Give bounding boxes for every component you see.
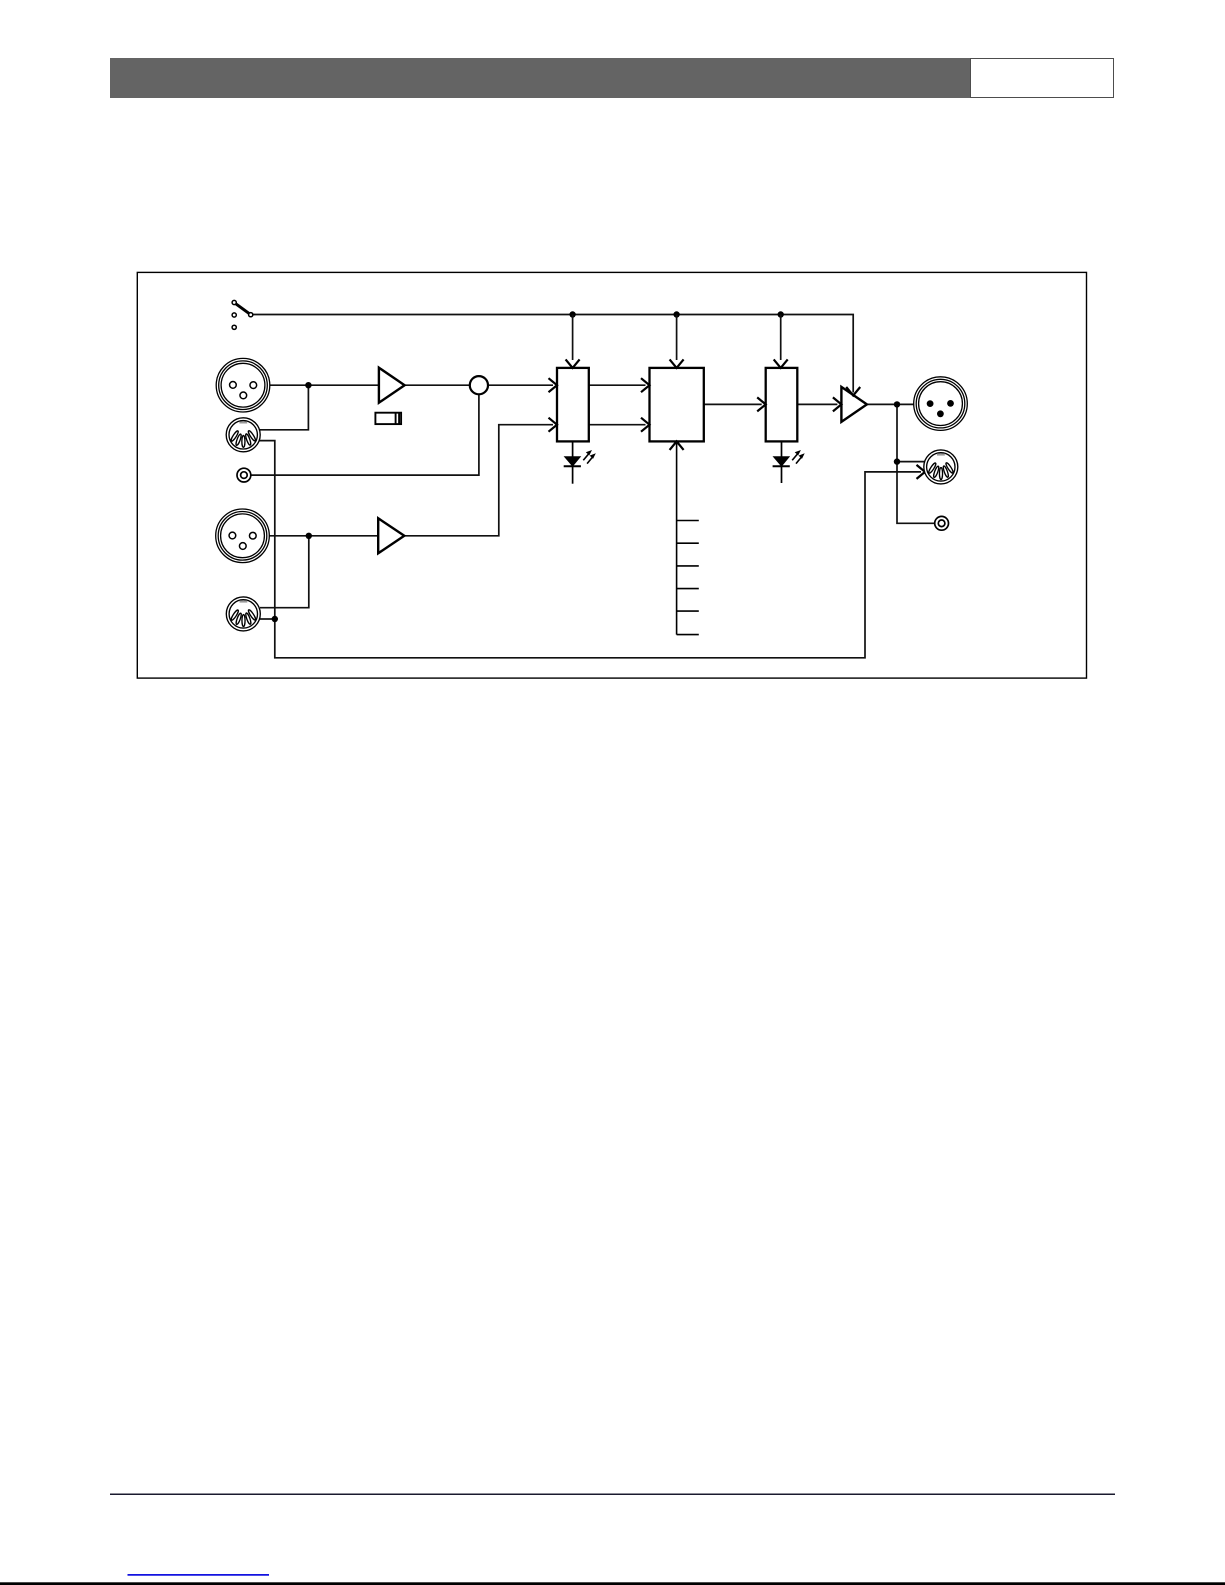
switch S1 lever <box>236 304 249 314</box>
switch S1 pole contact <box>249 313 253 317</box>
arrow onto driver U3 enable <box>846 387 860 396</box>
junction on rail above block1 <box>569 311 575 317</box>
LED D2 below block3 <box>773 441 805 483</box>
buffer amp U2 <box>378 518 404 553</box>
arrow into block1 lower input <box>549 418 558 432</box>
switch S1 contact bottom <box>232 325 236 329</box>
DIN output connector <box>924 450 958 484</box>
arrow into block1 upper input <box>549 378 558 392</box>
DIP switch comb below block2 <box>677 441 699 634</box>
arrow into block1 top <box>566 359 580 368</box>
arrow into block3 input <box>757 397 766 411</box>
wire: block1 to block2 upper <box>589 384 646 386</box>
wire: output junction down to DIN and RCA outputs <box>897 404 935 523</box>
XLR1 pin 1 <box>240 392 247 399</box>
wire: block2 output to block3 <box>704 403 762 405</box>
wire: amp U1 output to node <box>405 384 470 386</box>
wire: DIN input 2 lower pin to return path <box>260 618 275 620</box>
RCA input connector <box>237 468 251 482</box>
XLR output connector <box>914 377 968 431</box>
arrow into DIN output <box>917 465 926 479</box>
XLR out pin 2 <box>927 400 934 407</box>
buffer amp U1 <box>379 368 405 403</box>
XLR out pin 1 <box>937 410 944 417</box>
vertical drop rail to block1 <box>572 315 574 361</box>
switch S1 contact middle <box>232 313 236 317</box>
junction on rail above block3 <box>778 311 784 317</box>
LED D1 below block1 <box>564 441 596 483</box>
junction on rail above block2 <box>673 311 679 317</box>
diagram frame <box>137 272 1086 678</box>
junction on XLR2 thru wire <box>306 533 312 539</box>
junction on DIN2 return wire <box>272 616 278 622</box>
XLR input connector 1 <box>216 358 270 412</box>
footer link underline <box>128 1574 270 1576</box>
wire: output junction to DIN output upper pin <box>897 461 925 463</box>
wire: XLR input 1 to buffer amp U1 <box>270 384 378 386</box>
XLR2 pin 2 <box>229 532 236 539</box>
wire: driver U3 output to XLR output <box>867 403 914 405</box>
arrow into block2 bottom input <box>670 441 684 450</box>
XLR1 pin 3 <box>250 382 257 389</box>
wire: XLR input 2 to buffer amp U2 <box>269 535 377 537</box>
junction at driver output <box>894 401 900 407</box>
header gray bar <box>110 58 971 98</box>
footer rule <box>110 1493 1115 1495</box>
wire: node to receiver block input <box>488 384 553 386</box>
switch S1 contact top <box>232 300 236 304</box>
wire: block1 to block2 lower <box>589 424 646 426</box>
wire: thru junction down to DIN input 1 <box>259 385 308 430</box>
wire: block3 output to line driver U3 <box>797 403 837 405</box>
wire: XLR2 junction down to DIN input 2 <box>260 536 309 608</box>
opto/isolation barrier symbol <box>375 413 401 424</box>
vertical drop rail to block2 <box>676 315 678 361</box>
wire: top rail from switch to driver enable <box>253 315 854 393</box>
DIN input connector 2 <box>226 597 260 631</box>
block1 opto receiver <box>557 368 589 442</box>
arrow into block3 top <box>774 359 788 368</box>
block3 transmitter <box>766 368 798 442</box>
wire: amp U2 output up to block1 lower input <box>404 425 553 536</box>
arrow into driver U3 input <box>833 397 842 411</box>
XLR1 pin 2 <box>230 382 237 389</box>
junction on XLR1 thru wire <box>305 382 311 388</box>
wire: DIN1 return path along bottom to DIN output <box>259 441 921 658</box>
vertical drop rail to block3 <box>780 315 782 361</box>
wire: node down and left to RCA input <box>251 394 479 475</box>
RCA output connector <box>935 516 949 530</box>
node circle after U1 <box>470 376 488 394</box>
arrow into block2 lower input <box>641 418 650 432</box>
page bottom edge <box>0 1582 1225 1585</box>
block2 processor <box>650 368 704 442</box>
DIN input connector 1 <box>226 418 260 452</box>
XLR out pin 3 <box>947 400 954 407</box>
XLR2 pin 1 <box>239 543 246 550</box>
arrow into block2 upper input <box>641 378 650 392</box>
junction at DIN output branch <box>894 458 900 464</box>
XLR2 pin 3 <box>249 532 256 539</box>
arrow into block2 top <box>670 359 684 368</box>
XLR input connector 2 <box>216 509 270 563</box>
header page-number box <box>970 58 1114 98</box>
line driver U3 <box>841 387 867 422</box>
